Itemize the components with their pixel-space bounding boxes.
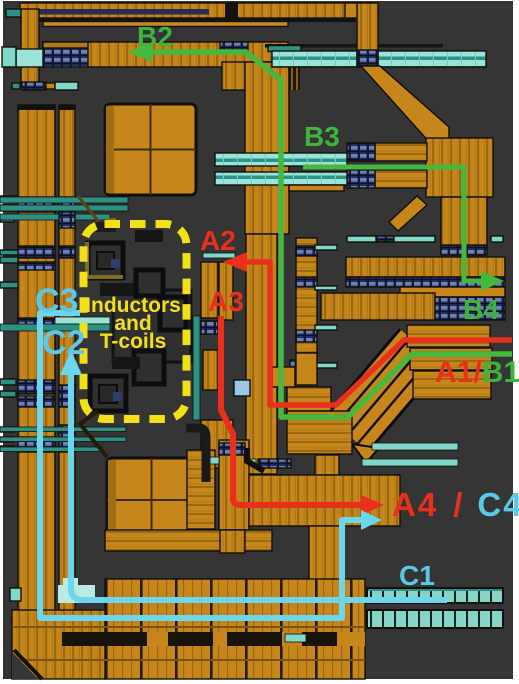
svg-text:B4: B4: [463, 294, 499, 325]
small diagonal stub: [389, 196, 427, 231]
tick b: [315, 286, 337, 290]
inductor ring mid: [136, 270, 163, 296]
interchange left hatch: [290, 360, 311, 385]
inductor ring center-bottom: [134, 351, 164, 384]
lower bar: [105, 530, 272, 551]
svg-text:A4/C4: A4/C4: [392, 486, 519, 523]
right band hatch: [346, 277, 505, 287]
mid column hatch b: [296, 277, 317, 287]
A4 wide block: [249, 475, 400, 526]
svg-text:A3: A3: [208, 286, 244, 317]
yellow dashed annotation box: [84, 224, 187, 419]
bottom-left diagonal cut: [12, 652, 38, 679]
bottom mass main: [105, 579, 365, 679]
bottom mass horizontal seams: [12, 600, 365, 660]
inductor ring bottom-left: [90, 376, 126, 411]
dark wire near A3 bend: [247, 448, 264, 471]
inductor ring mid2: [160, 297, 186, 330]
pale elbow under C2 corner: [58, 585, 95, 603]
mid column hatch a: [296, 246, 317, 256]
thin orange under B3 bar: [289, 185, 344, 191]
interchange right bar 2: [410, 348, 492, 370]
black signal line top right: [265, 44, 443, 48]
small via strip arrow pad: [12, 83, 20, 89]
signal path C2-C1 cyan: [71, 370, 447, 600]
left column narrow: [59, 105, 75, 620]
vertical bus top wide head: [222, 62, 284, 90]
B2 bus left pad: [2, 47, 16, 67]
arrowhead C2: [60, 350, 82, 375]
hub lower column: [441, 197, 487, 253]
svg-text:A2: A2: [200, 225, 236, 256]
hub left wing lower hatch: [347, 170, 375, 188]
left column caps: [18, 105, 55, 110]
signal path B2-B1 green: [151, 52, 512, 417]
teal tick right: [249, 459, 256, 464]
connector stub TL: [100, 283, 140, 296]
C1 bar row 2: [367, 610, 503, 628]
tick c: [315, 325, 337, 330]
B2 bus teal section: [16, 49, 43, 67]
signal path C3-C4 cyan: [40, 313, 362, 618]
stub above A4 block: [315, 455, 339, 475]
inductor ring top-left: [88, 243, 123, 278]
B2 bus orange run: [88, 42, 288, 67]
central vertical bus upper: [245, 62, 289, 234]
arrowhead C4: [361, 510, 382, 530]
svg-text:B3: B3: [304, 121, 340, 152]
lower column to bottom: [309, 526, 340, 582]
arrowhead B4: [481, 271, 504, 291]
right vertical stub top: [357, 3, 378, 67]
dark wire top block: [78, 196, 99, 222]
central vertical bus lower: [246, 234, 277, 474]
wide mid bar: [321, 293, 435, 320]
signal path A3-A4 red: [221, 316, 363, 505]
svg-text:A1/B1: A1/B1: [435, 356, 519, 389]
bottom mass black band: [62, 632, 365, 646]
top bus corner block: [345, 3, 378, 18]
diagonal feed to hub: [361, 66, 449, 144]
inductor slab center: [113, 290, 191, 362]
thin orange rail: [43, 22, 288, 27]
A4 left stack: [187, 450, 215, 529]
tick a: [315, 245, 337, 250]
tick d: [313, 363, 337, 368]
bottom tick: [285, 634, 306, 642]
band orange crossings: [147, 632, 168, 646]
mid column x296: [296, 238, 317, 353]
small via strip y83 hatch: [22, 82, 46, 90]
interchange right bar 1: [407, 325, 490, 347]
signal path B3-B4 green: [303, 167, 483, 281]
small via strip teal: [55, 82, 78, 90]
B4 band hatch: [435, 297, 505, 320]
A4 column hatch: [219, 443, 245, 455]
C1 bar row 1: [367, 588, 503, 603]
hub block: [426, 138, 493, 197]
ring TL via: [111, 259, 120, 268]
long cyan bus top: [272, 51, 486, 67]
thin teal rail hatch: [376, 236, 394, 242]
hub left wing upper hatch: [347, 143, 375, 161]
thin teal rail mid-right: [347, 236, 435, 242]
stub x cyan crossing hatch: [357, 50, 378, 67]
left top via column: [21, 9, 39, 83]
svg-text:C2: C2: [42, 324, 85, 362]
svg-text:C3: C3: [35, 282, 78, 320]
A4 block hatch: [258, 459, 291, 468]
bottom mass left: [12, 610, 105, 679]
small block above mass: [220, 530, 245, 553]
interchange diagonal band: [347, 347, 421, 434]
arrowhead A2: [223, 252, 247, 272]
svg-text:B2: B2: [137, 21, 173, 52]
hub left wing lower: [375, 170, 427, 188]
arrowhead A4: [361, 495, 384, 515]
small via strip orange: [46, 83, 55, 89]
quad macro lower: [107, 458, 196, 544]
svg-text:T-coils: T-coils: [100, 330, 167, 353]
ring TL olive edges: [85, 242, 89, 278]
signal path A2-A1 red: [231, 262, 512, 405]
mid column hatch c: [296, 330, 317, 342]
small stack left of A3: [201, 262, 218, 318]
top bus black break: [225, 3, 238, 18]
annotation text: [85, 294, 181, 353]
teal bar into box left: [55, 317, 110, 324]
small block left of interchange: [272, 367, 295, 387]
connector stub top: [135, 230, 163, 242]
interchange right bar 3: [413, 371, 491, 399]
quad macro upper: [105, 104, 196, 195]
B2 bus hatch orange fringe: [43, 42, 90, 48]
interchange left bar 1: [287, 387, 331, 411]
thin column x219: [219, 262, 233, 320]
thin teal rail right piece: [491, 236, 503, 242]
black band under top bus: [20, 18, 356, 23]
arrowhead B2: [128, 42, 152, 62]
teal rails over columns lower: [0, 427, 126, 432]
hub left wing upper: [375, 143, 427, 161]
ring BL via: [113, 392, 122, 401]
right band orange: [346, 257, 505, 277]
left edge teal ticks: [0, 196, 18, 202]
small top bits: [96, 222, 116, 232]
B4 band orange: [400, 287, 505, 297]
A4 column: [219, 440, 249, 530]
column hatch bands: [18, 197, 55, 212]
B3 cyan bar lower: [215, 172, 347, 185]
B2 bus hatched section: [43, 42, 90, 67]
left column wide: [18, 105, 55, 620]
thin cyan rail x196: [203, 253, 235, 258]
light blue via square: [234, 380, 250, 396]
dark corner duct left of A4 column: [186, 428, 206, 482]
top-left teal pad: [6, 9, 21, 17]
B3 cyan bar upper: [215, 153, 347, 166]
interchange left blockl: [296, 353, 317, 385]
teal rails over columns upper: [0, 197, 128, 203]
interchange left bar 2: [287, 411, 352, 454]
tick at block: [210, 457, 219, 464]
top metal bus M1: [20, 3, 352, 18]
svg-text:C1: C1: [399, 560, 435, 591]
connector stub BL: [112, 357, 140, 369]
top bus navy stripe: [23, 9, 209, 15]
dark wire from BL inductor: [80, 411, 107, 457]
small teal rail: [268, 46, 301, 52]
cyan pair right: [372, 443, 458, 450]
teal col right of box: [193, 316, 200, 420]
hub column base hatch: [441, 245, 487, 255]
B2 bar navy block: [220, 42, 248, 51]
